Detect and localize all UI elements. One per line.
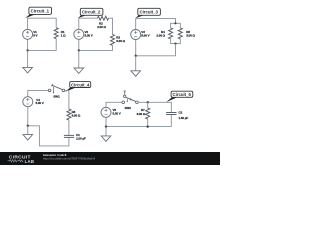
wire pair bottom rail: [171, 39, 181, 44]
wire ground stem ckt3: [135, 56, 137, 71]
svg-text:Circuit_3: Circuit_3: [140, 10, 159, 15]
svg-text:2.00 Ω: 2.00 Ω: [97, 25, 106, 29]
wire C2 bottom to bottom rail: [170, 115, 172, 127]
switch SW1: [48, 84, 64, 94]
wire SW2 to corner via R7 junction: [138, 102, 171, 112]
wire pair top rail: [171, 23, 181, 28]
capacitor C1: [64, 135, 74, 137]
wire pair stub to bottom: [136, 39, 176, 56]
wire bottom (R1 bottom to V1 bottom / ground): [28, 39, 57, 51]
svg-text:C2: C2: [179, 111, 183, 115]
svg-text:1.00 µF: 1.00 µF: [76, 137, 86, 141]
voltage source V3: [131, 30, 141, 40]
callout Circuit_2: [78, 8, 103, 18]
voltage source V5: [101, 107, 111, 117]
svg-text:http://circuitlab.com/c/785477: http://circuitlab.com/c/785477fb5bd/lab-…: [43, 157, 95, 161]
callout Circuit_3: [135, 8, 160, 18]
resistor R3: [111, 34, 115, 45]
wire R6 bottom to C1 top: [68, 120, 70, 135]
wire R7 top lead: [147, 102, 149, 108]
svg-text:6.00 Ω: 6.00 Ω: [137, 112, 146, 116]
svg-text:Circuit_2: Circuit_2: [82, 10, 101, 15]
resistor R5: [178, 28, 182, 39]
wire ground stem ckt6: [105, 127, 107, 136]
wire ground stem C1ckt: [27, 50, 29, 67]
wire ground stem ckt2: [78, 50, 80, 68]
resistor R4: [169, 28, 173, 39]
ground (circuit 2): [74, 68, 84, 74]
voltage source V4: [23, 97, 33, 107]
voltage source V1: [23, 29, 33, 39]
junction V3 bottom: [135, 55, 137, 57]
svg-text:Circuit_4: Circuit_4: [71, 82, 90, 87]
svg-text:1 Ω: 1 Ω: [61, 34, 66, 38]
svg-text:LAB: LAB: [25, 159, 35, 164]
voltage source V2: [74, 29, 84, 39]
svg-text:1.00 µF: 1.00 µF: [179, 116, 189, 120]
svg-text:5.00 V: 5.00 V: [85, 34, 93, 38]
svg-text:5.00 V: 5.00 V: [36, 101, 44, 105]
svg-text:2.00 Ω: 2.00 Ω: [156, 34, 165, 38]
resistor R7: [146, 108, 150, 119]
svg-text:SW1: SW1: [53, 95, 60, 99]
junction pair bottom: [174, 43, 176, 45]
wire ground stem ckt4: [27, 126, 29, 135]
svg-text:5 V: 5 V: [33, 34, 37, 38]
wire bottom rail ckt6: [106, 117, 171, 127]
wire V5 top to SW2: [106, 102, 122, 107]
junction R7 bottom: [147, 125, 149, 127]
ground (circuit 1): [23, 67, 33, 73]
ground (circuit 3): [131, 71, 141, 77]
svg-text:5.00 V: 5.00 V: [141, 34, 149, 38]
wire top-right (R2 right to R3 top): [109, 18, 113, 34]
svg-text:3.00 Ω: 3.00 Ω: [116, 39, 125, 43]
wire SW1 to R6 top: [65, 90, 69, 109]
ground (circuit 6): [101, 136, 111, 142]
junction V4 bottom: [27, 125, 29, 127]
junction R7 top: [147, 101, 149, 103]
capacitor C2: [166, 113, 176, 115]
junction V5 bottom: [105, 125, 107, 127]
svg-text:Circuit_6: Circuit_6: [173, 92, 192, 97]
junction V2 bottom: [78, 49, 80, 51]
svg-text:5.00 V: 5.00 V: [113, 111, 121, 115]
wire R7 bottom lead: [147, 119, 149, 127]
wire top (V1 top to R1 top): [28, 18, 57, 29]
junction V1 bottom: [26, 49, 28, 51]
wire C1 bottom S-route to V4 bottom: [28, 107, 69, 146]
resistor R1: [54, 28, 58, 39]
svg-text:SW2: SW2: [125, 106, 132, 110]
svg-text:Circuit_1: Circuit_1: [31, 9, 50, 14]
switch SW2: [122, 91, 138, 104]
resistor R6: [67, 109, 71, 120]
svg-text:3.00 Ω: 3.00 Ω: [186, 34, 195, 38]
callout Circuit_4: [65, 82, 91, 92]
wire V4 top to SW1: [28, 90, 49, 97]
callout Circuit_6: [166, 91, 193, 102]
logo squiggle + LAB: [8, 159, 35, 164]
wire top (V3 top to parallel pair stub): [136, 18, 176, 29]
callout Circuit_1: [25, 7, 51, 18]
resistor R2 (horizontal): [98, 16, 109, 20]
ground (circuit 4): [23, 135, 33, 141]
junction pair top: [174, 22, 176, 24]
wire top-left (V2 top to R2 left): [79, 18, 98, 29]
wire bottom (R3 bottom to V2 bottom): [79, 39, 113, 50]
svg-text:6.00 Ω: 6.00 Ω: [72, 114, 81, 118]
